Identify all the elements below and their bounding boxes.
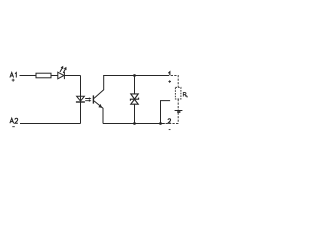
wire collector rail bbox=[103, 75, 169, 77]
TVS suppressor diode bar bbox=[130, 98, 138, 101]
terminal 2 polarity minus bbox=[169, 129, 171, 131]
wire TVS top lead bbox=[134, 76, 136, 94]
LED D1 bbox=[58, 72, 65, 79]
junction node TVS bottom bbox=[133, 122, 136, 125]
wire LED to corner bbox=[64, 75, 80, 77]
terminal 1 label bbox=[168, 72, 169, 76]
phototransistor Q1 base bar bbox=[93, 95, 94, 103]
wire vertical input branch bbox=[80, 76, 82, 124]
terminal A2 label bbox=[10, 118, 18, 123]
optocoupler LED bbox=[77, 96, 85, 101]
wire A2 rail bbox=[20, 123, 81, 125]
wire resistor to LED bbox=[51, 75, 58, 77]
dashed wire RL to battery bbox=[177, 99, 179, 110]
external dashed wire terminal 1 to load bbox=[171, 76, 178, 88]
wire TVS bottom lead bbox=[134, 104, 136, 123]
A2 polarity minus bbox=[12, 126, 15, 128]
terminal 2 label bbox=[168, 119, 171, 123]
phototransistor Q1 emitter bbox=[94, 101, 103, 124]
terminal A1 label bbox=[10, 73, 16, 78]
TVS suppressor diode top half bbox=[131, 94, 138, 99]
LED D1 emission arrows bbox=[60, 68, 65, 73]
output contact bracket bbox=[161, 101, 171, 124]
TVS suppressor diode bottom half bbox=[131, 99, 138, 104]
battery V1 bbox=[175, 110, 183, 112]
load resistor RL label bbox=[183, 93, 188, 97]
wire A1 to resistor bbox=[20, 75, 37, 77]
dashed wire battery to terminal 2 bbox=[165, 113, 178, 124]
junction node output bracket bbox=[159, 122, 162, 125]
wire emitter rail bbox=[103, 123, 165, 125]
load resistor RL dashed box bbox=[175, 87, 181, 99]
phototransistor Q1 collector bbox=[94, 76, 104, 99]
junction node TVS top bbox=[133, 74, 136, 77]
phototransistor Q1 emitter arrow bbox=[98, 104, 102, 108]
optocoupler light arrows bbox=[85, 99, 89, 101]
terminal 1 polarity plus bbox=[168, 80, 171, 83]
resistor R1 bbox=[36, 73, 51, 78]
A1 polarity plus bbox=[12, 79, 15, 82]
